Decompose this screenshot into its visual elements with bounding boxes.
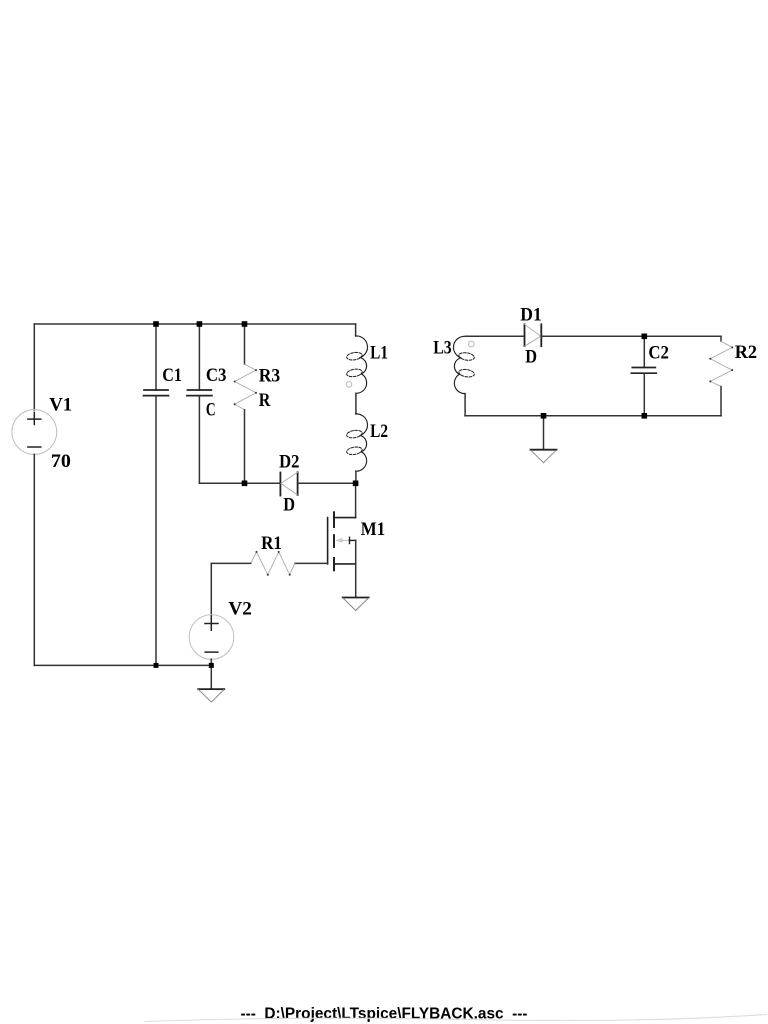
- wire gate to R1: [295, 562, 328, 564]
- svg-text:R3: R3: [259, 366, 281, 387]
- node dot top R3: [242, 321, 248, 327]
- svg-text:D: D: [525, 347, 537, 368]
- resistor R3: [234, 324, 257, 483]
- wire bottom rail: [34, 664, 211, 666]
- svg-text:C: C: [206, 400, 216, 421]
- wire M1 drain: [355, 483, 357, 517]
- wire top rail left circuit: [34, 323, 355, 325]
- voltage source V2: [189, 615, 234, 660]
- ground V2: [198, 689, 224, 702]
- svg-text:D1: D1: [520, 305, 542, 326]
- capacitor C3: [187, 324, 212, 483]
- svg-text:D: D: [283, 495, 295, 516]
- inductor L2: [346, 414, 367, 471]
- resistor R1: [251, 551, 295, 576]
- wire corner down to V2: [210, 563, 212, 614]
- node dot y483 R3: [242, 481, 248, 487]
- inductor L1: [346, 336, 367, 393]
- wire left vertical to V1: [33, 324, 35, 410]
- svg-text:V1: V1: [49, 394, 72, 415]
- wire M1 source down: [355, 564, 357, 598]
- node dot ground rail: [541, 413, 547, 419]
- ground right circuit: [531, 450, 557, 463]
- phase dot L1: [346, 382, 352, 388]
- wire D1 to R2 top rail: [541, 335, 721, 337]
- svg-text:R: R: [259, 390, 271, 411]
- node dot C2 bottom: [642, 413, 648, 419]
- wire V2 ground stem: [210, 665, 212, 689]
- capacitor C2: [631, 336, 656, 416]
- wire between L1 L2: [355, 393, 357, 414]
- svg-text:C3: C3: [206, 365, 227, 386]
- node dot top C1: [153, 321, 159, 327]
- mosfet M1: [328, 512, 356, 570]
- node dot bottom V2: [209, 663, 214, 668]
- wire R1 to corner: [211, 562, 250, 564]
- svg-text:R1: R1: [261, 533, 282, 554]
- wire right ground stem: [543, 416, 545, 450]
- node dot C2 top: [642, 334, 648, 340]
- wire L2 exit: [355, 471, 357, 483]
- node dot top C3: [197, 321, 203, 327]
- scan artifact line: [145, 1015, 766, 1022]
- svg-text:L3: L3: [433, 338, 452, 359]
- svg-text:L1: L1: [370, 343, 388, 364]
- svg-text:M1: M1: [361, 519, 385, 540]
- node dot y483 L2 drain: [353, 481, 359, 487]
- wire V2 bottom: [210, 659, 212, 665]
- ground M1: [343, 598, 369, 611]
- diode D2 pointing left: [280, 472, 297, 495]
- svg-text:L2: L2: [370, 421, 388, 442]
- svg-text:D2: D2: [279, 452, 299, 473]
- inductor L3 mirrored: [453, 336, 474, 393]
- wire y483 left segment: [199, 482, 280, 484]
- wire y483 right segment: [298, 482, 356, 484]
- node dot bottom C1: [154, 663, 159, 668]
- svg-text:C1: C1: [162, 365, 182, 386]
- voltage source V1: [12, 410, 57, 455]
- diode D1 pointing right: [525, 324, 542, 346]
- resistor R2: [709, 336, 733, 416]
- wire L1 entry: [355, 324, 357, 336]
- wire bottom rail right circuit: [465, 415, 721, 417]
- wire top rail to D1: [465, 335, 524, 337]
- wire V1 bottom to rail: [33, 454, 35, 665]
- svg-text:V2: V2: [228, 599, 252, 620]
- svg-text:70: 70: [51, 451, 71, 472]
- svg-text:C2: C2: [648, 342, 669, 363]
- phase dot L3: [469, 341, 475, 347]
- svg-text:R2: R2: [735, 342, 757, 363]
- wire L3 exit down: [464, 394, 466, 416]
- capacitor C1: [144, 324, 169, 666]
